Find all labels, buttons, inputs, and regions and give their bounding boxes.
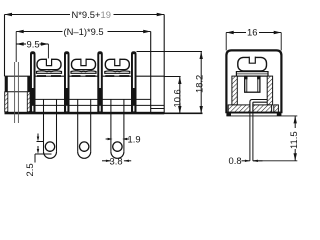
screw head 2 — [71, 58, 96, 76]
pin 1 — [44, 100, 57, 159]
pin 2 — [78, 100, 91, 159]
dimension 10.6 extension — [164, 76, 180, 78]
dimension 18.2 extension top — [164, 51, 202, 53]
wire: extension line screw1 slot center — [47, 44, 49, 64]
svg-text:1.9: 1.9 — [128, 133, 141, 144]
side view 16 extension left — [225, 33, 227, 51]
dimension 11.5 text — [288, 128, 300, 149]
dimension 9.5 text — [27, 39, 40, 50]
wire: extension line first pole center — [15, 32, 17, 63]
side view 16 extension right — [280, 33, 282, 51]
dimension 9.5 line — [16, 42, 48, 45]
svg-text:N*9.5+: N*9.5+ — [72, 9, 101, 20]
dimension 11.5 line — [294, 116, 297, 161]
side view screw head — [238, 56, 267, 71]
side view left cavity wall — [232, 76, 237, 105]
dimension 11.5 bottom reference — [253, 160, 297, 162]
dimension 11.5 top reference — [226, 115, 297, 117]
wire: break line right outer / body right edge — [163, 15, 165, 114]
side view screw shank — [245, 76, 260, 92]
svg-text:11.5: 11.5 — [288, 131, 299, 149]
wire: extension line left body edge — [4, 15, 6, 77]
pin 3 — [111, 100, 124, 159]
front view bottom rail — [5, 112, 165, 115]
dimension 18.2 bottom extension — [151, 112, 203, 114]
side view pin — [250, 106, 253, 161]
side view base hatch strip right — [253, 105, 272, 113]
side view washer — [236, 72, 268, 77]
dimension N*9.5+19 line — [5, 13, 165, 16]
barrier wall 1 — [30, 51, 36, 112]
left end block left wall — [5, 76, 8, 92]
dimension (N-1)*9.5 line — [16, 30, 151, 33]
screw head 3 — [105, 58, 130, 76]
body top right corner — [137, 51, 165, 53]
dimension (N-1)*9.5 text — [64, 26, 104, 37]
barrier wall 3 — [97, 51, 103, 112]
svg-text:19: 19 — [101, 9, 111, 20]
dimension 2.5 — [35, 134, 52, 163]
svg-text:3.8: 3.8 — [110, 155, 123, 166]
svg-text:9.5: 9.5 — [27, 39, 40, 50]
side view body outline — [226, 50, 281, 113]
svg-text:16: 16 — [247, 27, 257, 38]
side view right cavity wall — [267, 76, 272, 105]
svg-text:0.8: 0.8 — [229, 155, 242, 166]
barrier wall 2 — [64, 51, 70, 112]
dimension 0.8 — [242, 160, 263, 162]
side view base hatch strip right block — [274, 105, 279, 113]
left end block cavity bottom — [8, 91, 27, 93]
barrier wall 4 — [131, 51, 137, 112]
dimension 18.2 line — [200, 52, 203, 114]
side view base hatch strip left — [228, 105, 250, 113]
front view body base top line — [5, 75, 165, 77]
svg-text:18.2: 18.2 — [194, 75, 205, 93]
dimension 10.6 line — [178, 77, 181, 114]
side view foot right — [277, 114, 282, 116]
side view foot left — [226, 114, 231, 116]
svg-text:10.6: 10.6 — [171, 89, 182, 107]
svg-text:2.5: 2.5 — [24, 163, 35, 176]
front view lip line — [36, 104, 165, 106]
side view dimension 16 line — [226, 31, 281, 34]
svg-text:(N–1)*9.5: (N–1)*9.5 — [64, 26, 104, 37]
left end block right wall — [27, 76, 30, 92]
side view base bottom rail — [226, 112, 281, 114]
front view recess line — [36, 98, 151, 100]
front view lip line right end — [151, 108, 165, 110]
dimension 1.9 — [106, 138, 130, 140]
left end block hole line right — [17, 62, 19, 123]
left end block hole line left — [14, 62, 16, 123]
dimension 3.8 — [102, 160, 131, 162]
side view bent lead — [250, 100, 267, 107]
screw head 1 — [37, 58, 62, 76]
wire: break line right inner — [150, 32, 152, 114]
dimension N*9.5+19 text — [72, 9, 111, 20]
